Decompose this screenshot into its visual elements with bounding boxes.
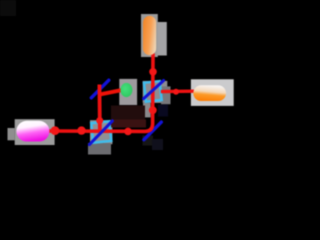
atom O (red dot mid of pink bond) [77, 126, 85, 134]
label box of atom M1 (right extension) [161, 86, 171, 104]
dark red annotation smudge lower [110, 120, 146, 128]
label box of atom M2 (lower crossed square, main) [90, 120, 112, 144]
faint dark box under bond B2 [143, 136, 154, 146]
faint navy label box [158, 105, 168, 117]
crossed square of atom M2 [91, 121, 111, 142]
diagonal of crossed square M1 (blue) [144, 81, 164, 99]
atom ellipsoid O2 (right orange capsule) [193, 85, 226, 101]
bond B1 (blue, to upper-left of node) [91, 80, 109, 98]
crossed square of atom M1 [144, 81, 162, 102]
atom O (red dot on M1 lower vertical) [149, 106, 157, 114]
label box of atom M1 (upper crossed square, main) [143, 81, 168, 103]
atom O (red dot on top vertical bond) [149, 68, 157, 76]
atom O (red dot right of pink capsule) [51, 126, 60, 135]
label box of atom M1 (lower-left extension) [143, 103, 151, 117]
bond: M1 to right capsule (red horizontal) [161, 89, 194, 93]
label box of atom M2 (lower extension) [88, 143, 111, 155]
faint corner square [0, 0, 16, 16]
atom O (red dot on right horizontal bond) [173, 89, 179, 95]
label box of atom F1 (pink, main) [15, 119, 55, 145]
atom ellipsoid F1 (pink capsule) [16, 121, 49, 142]
label box of atom O1 (top, left part) [141, 14, 158, 57]
atom O (red dot above M2) [96, 117, 103, 124]
bond: top capsule through M1, bend, through M2 to pink capsule (red main path) [50, 54, 154, 131]
diagonal of crossed square M2 (blue) [89, 121, 112, 145]
faint dark box right of bond B2 [152, 139, 163, 150]
bond B2 (blue, lower right) [144, 122, 161, 140]
dark red annotation smudge upper [111, 106, 145, 120]
bond: node down to M2 (red vertical) [98, 85, 102, 132]
atom ellipsoid O1 (top orange capsule) [143, 16, 156, 55]
bond: node to Cl1 (red horizontal) [100, 90, 123, 95]
label box of atom O1 (top, right part) [158, 22, 167, 56]
label box of atom Cl1 (green) [119, 79, 137, 105]
atom O (red dot on horizontal to M2) [124, 128, 132, 136]
label box of atom F1 (left stub) [8, 128, 15, 140]
atom Cl1 (green circle) [120, 83, 132, 97]
label box of atom O2 (right capsule) [191, 79, 234, 106]
